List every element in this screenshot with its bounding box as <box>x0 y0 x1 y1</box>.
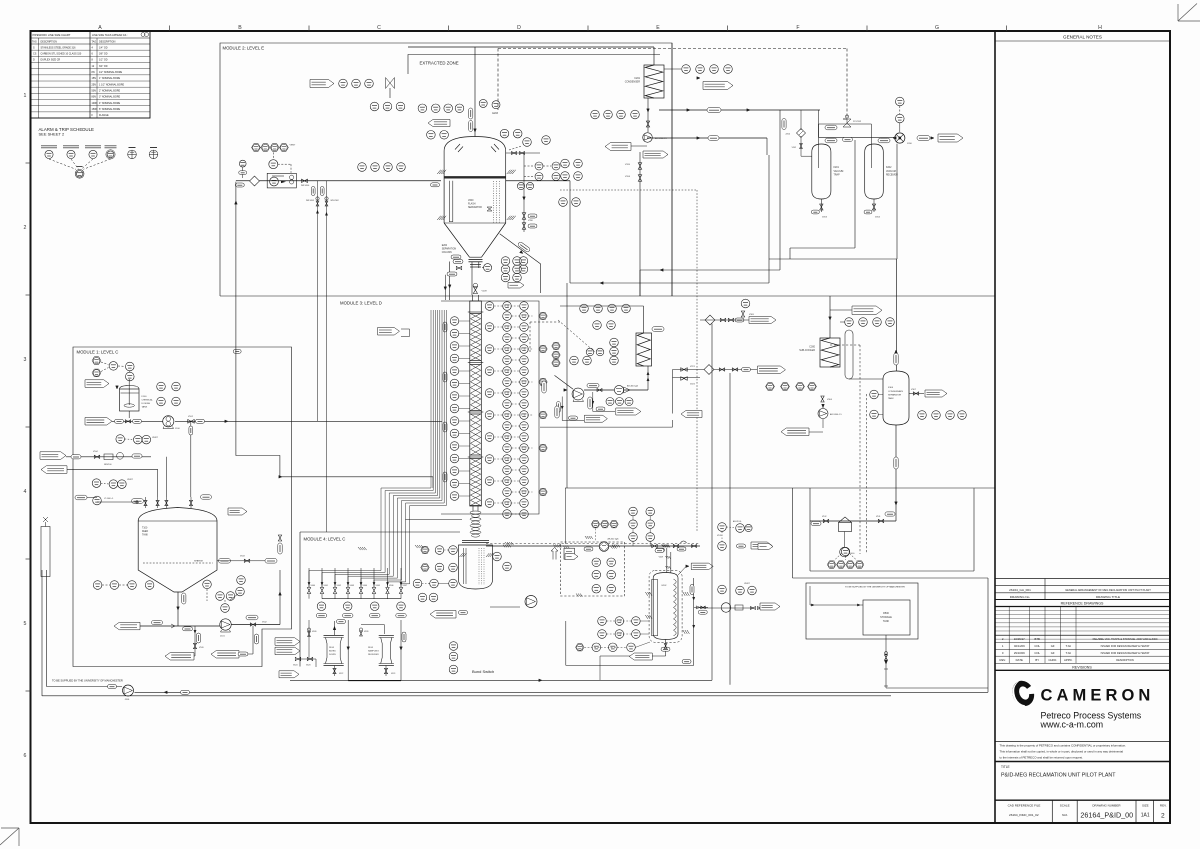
svg-text:TJH: TJH <box>1066 644 1071 648</box>
svg-text:GENERAL ARRANGEMENT OF MEG REC: GENERAL ARRANGEMENT OF MEG RECLAMATION U… <box>1065 588 1151 592</box>
svg-text:N/A: N/A <box>1062 813 1068 817</box>
svg-text:VACUUM: VACUUM <box>886 170 896 173</box>
svg-text:RIG3: RIG3 <box>368 647 374 649</box>
svg-text:www.c-a-m.com: www.c-a-m.com <box>1040 720 1104 730</box>
svg-text:VACUUM: VACUUM <box>834 170 844 173</box>
svg-text:This information shall not be: This information shall not be copied, in… <box>1000 749 1124 753</box>
svg-text:V401: V401 <box>324 585 328 587</box>
svg-text:REVISIONS: REVISIONS <box>1072 665 1092 669</box>
svg-text:V423: V423 <box>306 665 310 667</box>
svg-text:F100: F100 <box>142 396 148 398</box>
svg-text:VENT: VENT <box>744 583 750 585</box>
svg-text:TO BE SUPPLIED BY THE UNIVERSI: TO BE SUPPLIED BY THE UNIVERSITY OF MANC… <box>845 586 905 589</box>
svg-text:VENT: VENT <box>127 479 133 481</box>
svg-text:TANK: TANK <box>142 406 148 409</box>
svg-text:REFERENCE DRAWINGS: REFERENCE DRAWINGS <box>1061 602 1104 606</box>
svg-text:V307: V307 <box>911 389 917 391</box>
svg-text:MODULE 4: LEVEL C: MODULE 4: LEVEL C <box>304 537 346 542</box>
svg-text:29/10/09: 29/10/09 <box>1014 651 1025 655</box>
svg-text:AR-V8 L/L: AR-V8 L/L <box>733 520 742 523</box>
svg-text:1/4" OD: 1/4" OD <box>99 46 108 49</box>
svg-text:PCV202: PCV202 <box>853 121 862 123</box>
svg-text:V203: V203 <box>822 217 828 219</box>
svg-text:V101: V101 <box>876 516 880 518</box>
svg-text:APPD.: APPD. <box>1064 658 1073 662</box>
svg-text:RECEIVER: RECEIVER <box>886 175 898 177</box>
svg-text:LINE SIZE TAGS APPEAR AS :: LINE SIZE TAGS APPEAR AS : <box>92 33 128 37</box>
svg-text:DESCRIPTION: DESCRIPTION <box>99 41 116 44</box>
svg-text:WR-V301: WR-V301 <box>306 200 314 202</box>
svg-text:TAG: TAG <box>32 41 37 44</box>
svg-text:15N: 15N <box>92 77 97 80</box>
svg-text:GF: GF <box>1051 651 1055 655</box>
svg-text:25N: 25N <box>92 83 97 86</box>
svg-text:5: 5 <box>24 621 27 627</box>
svg-text:TANK: TANK <box>142 534 148 537</box>
svg-text:V305: V305 <box>749 314 755 316</box>
svg-text:CAMERON: CAMERON <box>1041 687 1155 705</box>
svg-text:V404: V404 <box>363 585 367 587</box>
svg-text:FEED: FEED <box>142 531 148 533</box>
svg-text:SUB-COOLER: SUB-COOLER <box>799 349 815 352</box>
svg-text:CAD REFERENCE FILE: CAD REFERENCE FILE <box>1008 803 1041 807</box>
svg-text:1/2" NOMINAL BORE: 1/2" NOMINAL BORE <box>99 71 122 74</box>
svg-text:GF: GF <box>1051 644 1055 648</box>
svg-text:V403: V403 <box>350 585 354 587</box>
svg-text:EXTRACTED ZONE: EXTRACTED ZONE <box>420 61 459 66</box>
svg-text:PIPEWORK LINE SIZE CHART: PIPEWORK LINE SIZE CHART <box>33 33 71 37</box>
svg-text:V400: V400 <box>311 585 315 587</box>
svg-text:B: B <box>238 25 242 31</box>
svg-text:WR-V302: WR-V302 <box>331 200 339 202</box>
svg-text:1A1: 1A1 <box>1141 813 1150 819</box>
svg-text:TAG: TAG <box>92 41 97 44</box>
svg-text:E: E <box>656 25 660 31</box>
svg-text:2: 2 <box>24 225 27 231</box>
svg-text:TJH: TJH <box>1066 651 1071 655</box>
svg-text:F: F <box>796 25 799 31</box>
svg-text:V102: V102 <box>822 516 826 518</box>
svg-text:TITLE: TITLE <box>1001 765 1010 769</box>
svg-text:TRAP: TRAP <box>834 174 841 177</box>
svg-text:V405: V405 <box>376 585 380 587</box>
svg-text:150N: 150N <box>92 108 98 111</box>
svg-text:K202: K202 <box>886 167 892 169</box>
svg-text:VENT: VENT <box>152 437 158 439</box>
svg-text:LT-100 L/L: LT-100 L/L <box>104 498 114 500</box>
svg-text:DESCRIPTION: DESCRIPTION <box>41 41 58 44</box>
svg-text:BY: BY <box>1035 658 1039 662</box>
svg-text:TANK: TANK <box>888 397 894 400</box>
svg-text:V304: V304 <box>827 399 833 401</box>
svg-text:DUPLEX SIZE CR: DUPLEX SIZE CR <box>41 59 61 62</box>
svg-text:3" NOMINAL BORE: 3" NOMINAL BORE <box>99 96 120 99</box>
svg-text:T100: T100 <box>142 528 148 530</box>
svg-text:J206: J206 <box>125 699 131 701</box>
svg-text:DOWN: DOWN <box>329 654 336 656</box>
svg-text:V105: V105 <box>717 535 721 537</box>
svg-text:02/11/09: 02/11/09 <box>1014 644 1025 648</box>
svg-text:RIG3: RIG3 <box>329 647 335 649</box>
svg-text:SIZE: SIZE <box>1142 803 1149 807</box>
svg-text:26164_P&ID_00: 26164_P&ID_00 <box>1080 810 1133 819</box>
svg-text:STORAGE: STORAGE <box>880 616 892 619</box>
svg-text:SCALE: SCALE <box>1060 803 1070 807</box>
svg-text:8N: 8N <box>92 71 95 74</box>
svg-text:FLASH: FLASH <box>468 203 476 206</box>
svg-text:CARBON STL SCHED 10 CLASS 150: CARBON STL SCHED 10 CLASS 150 <box>41 52 82 55</box>
svg-text:BTB: BTB <box>1034 637 1040 641</box>
svg-text:C: C <box>377 25 381 31</box>
svg-text:CONDENSATE: CONDENSATE <box>888 390 904 393</box>
svg-text:1 1/2" NOMINAL BORE: 1 1/2" NOMINAL BORE <box>99 83 124 86</box>
svg-text:AR-V200-1.5: AR-V200-1.5 <box>655 137 667 140</box>
svg-text:80N: 80N <box>92 96 97 99</box>
svg-text:FLANGE: FLANGE <box>99 114 109 117</box>
svg-text:MODULE 2: LEVEL E: MODULE 2: LEVEL E <box>223 46 265 51</box>
svg-text:V202: V202 <box>792 147 796 149</box>
svg-text:V426: V426 <box>364 631 368 633</box>
svg-text:1" NOMINAL BORE: 1" NOMINAL BORE <box>99 77 120 80</box>
svg-text:MODULE 1: LEVEL C: MODULE 1: LEVEL C <box>77 350 119 355</box>
svg-text:D: D <box>33 59 35 62</box>
svg-text:RECEIVER: RECEIVER <box>368 654 379 656</box>
svg-text:V422: V422 <box>339 673 343 675</box>
svg-text:REV.: REV. <box>1160 803 1167 807</box>
svg-text:4" NOMINAL BORE: 4" NOMINAL BORE <box>99 102 120 105</box>
svg-text:1: 1 <box>24 93 27 99</box>
svg-text:26164_GA_001: 26164_GA_001 <box>1009 588 1031 592</box>
svg-text:V209: V209 <box>482 291 488 293</box>
svg-text:DRAWING TITLE: DRAWING TITLE <box>1096 595 1120 599</box>
svg-text:NRV100: NRV100 <box>104 464 112 466</box>
svg-text:GENERAL NOTES: GENERAL NOTES <box>1063 35 1102 40</box>
svg-text:4: 4 <box>24 489 27 495</box>
svg-text:H: H <box>1098 25 1102 31</box>
svg-text:G: G <box>935 25 939 31</box>
svg-text:VENT: VENT <box>290 145 296 147</box>
svg-text:V222: V222 <box>690 384 696 386</box>
svg-text:CS: CS <box>33 52 37 55</box>
svg-text:2: 2 <box>1161 812 1165 819</box>
svg-text:MODULE 3: LEVEL D: MODULE 3: LEVEL D <box>340 301 382 306</box>
svg-text:100N: 100N <box>92 102 98 105</box>
svg-text:6: 6 <box>24 753 27 759</box>
svg-text:3/4" OD: 3/4" OD <box>99 65 108 68</box>
svg-text:REV.: REV. <box>1000 658 1006 662</box>
svg-text:ISSUED FOR DESIGN REVIEW & HAZ: ISSUED FOR DESIGN REVIEW & HAZOP <box>1101 644 1150 648</box>
svg-text:P&ID-MEG RECLAMATION UNIT PILO: P&ID-MEG RECLAMATION UNIT PILOT PLANT <box>1001 773 1116 779</box>
svg-text:Bund Switch: Bund Switch <box>472 669 494 674</box>
svg-text:CHKD.: CHKD. <box>1048 658 1057 662</box>
svg-text:WR-V300: WR-V300 <box>301 185 309 187</box>
svg-text:V205: V205 <box>625 164 631 166</box>
svg-text:AR-V300-1.5: AR-V300-1.5 <box>830 413 842 416</box>
svg-text:CHEMICAL: CHEMICAL <box>142 399 154 402</box>
svg-text:COL: COL <box>1034 644 1040 648</box>
svg-text:3: 3 <box>24 357 27 363</box>
svg-text:V406: V406 <box>389 585 393 587</box>
svg-text:K300: K300 <box>888 387 894 389</box>
svg-text:V204: V204 <box>625 176 631 178</box>
svg-text:DOSING: DOSING <box>142 403 151 405</box>
svg-text:V424: V424 <box>293 665 297 667</box>
svg-text:ISSUED FOR DESIGN REVIEW & HAZ: ISSUED FOR DESIGN REVIEW & HAZOP <box>1101 651 1150 655</box>
svg-text:TO BE SUPPLIED BY THE UNIVERSI: TO BE SUPPLIED BY THE UNIVERSITY OF MANC… <box>52 679 123 683</box>
svg-text:BLEED: BLEED <box>329 651 336 653</box>
svg-text:K201: K201 <box>834 167 840 169</box>
svg-text:V429: V429 <box>659 557 663 559</box>
svg-text:TANK: TANK <box>883 620 890 623</box>
svg-text:V102: V102 <box>188 416 194 418</box>
svg-text:J100: J100 <box>175 428 181 430</box>
svg-text:AR-300 kg/h: AR-300 kg/h <box>627 385 638 388</box>
svg-text:J101: J101 <box>220 636 226 638</box>
svg-text:SEPARATOR: SEPARATOR <box>468 206 482 209</box>
svg-text:DRAWING NUMBER: DRAWING NUMBER <box>1092 803 1121 807</box>
svg-text:STAINLESS STEEL GRADE 316: STAINLESS STEEL GRADE 316 <box>41 46 77 49</box>
svg-text:DRAWING No.: DRAWING No. <box>1010 595 1031 599</box>
svg-text:AR-300 kg/h: AR-300 kg/h <box>608 538 619 541</box>
svg-text:COL: COL <box>1034 651 1040 655</box>
svg-text:DESCRIPTION: DESCRIPTION <box>1116 658 1134 662</box>
svg-text:to the interests of PETRECO an: to the interests of PETRECO and shall be… <box>1000 755 1084 759</box>
svg-text:DATE: DATE <box>1016 658 1023 662</box>
svg-text:2" NOMINAL BORE: 2" NOMINAL BORE <box>99 89 120 92</box>
svg-text:SEPARATOR: SEPARATOR <box>888 394 902 397</box>
svg-text:V200: V200 <box>468 200 474 202</box>
svg-text:E200: E200 <box>442 245 448 247</box>
svg-text:SAMPLING: SAMPLING <box>368 650 379 653</box>
svg-text:V409: V409 <box>312 631 316 633</box>
svg-text:V423: V423 <box>391 673 395 675</box>
svg-text:SEE SHEET 2: SEE SHEET 2 <box>39 132 65 137</box>
svg-text:SPARGE: SPARGE <box>194 560 203 563</box>
svg-text:16/06/17: 16/06/17 <box>1014 637 1025 641</box>
svg-text:J200: J200 <box>907 143 913 145</box>
svg-text:A: A <box>98 25 102 31</box>
svg-text:6" NOMINAL BORE: 6" NOMINAL BORE <box>99 108 120 111</box>
svg-text:V407: V407 <box>403 585 407 587</box>
svg-text:26164_P&ID_001_02: 26164_P&ID_001_02 <box>1009 813 1039 817</box>
svg-text:This drawing is the property o: This drawing is the property of PETRECO … <box>1000 743 1127 747</box>
svg-text:D: D <box>517 25 521 31</box>
svg-text:V204: V204 <box>875 217 881 219</box>
svg-text:CONDENSER: CONDENSER <box>625 81 641 84</box>
svg-text:E203: E203 <box>492 112 498 115</box>
svg-text:RELABEL VAC. TRAPS & STORAGE.: RELABEL VAC. TRAPS & STORAGE. ADD V203 &… <box>1093 637 1158 641</box>
svg-text:V221: V221 <box>690 366 696 368</box>
svg-text:R500: R500 <box>883 612 889 615</box>
svg-text:COLUMN: COLUMN <box>442 252 452 254</box>
svg-text:50N: 50N <box>92 89 97 92</box>
svg-text:V402: V402 <box>337 585 341 587</box>
svg-text:1/2" OD: 1/2" OD <box>99 59 108 62</box>
svg-text:E202: E202 <box>662 585 668 587</box>
svg-text:3/8" OD: 3/8" OD <box>99 52 108 55</box>
svg-text:SEPARATION: SEPARATION <box>442 248 457 251</box>
